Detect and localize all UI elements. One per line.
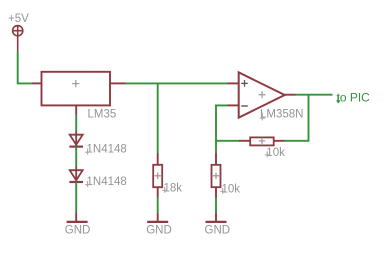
ground GND3 xyxy=(206,213,227,222)
resistor R3 left pin xyxy=(239,140,250,142)
R1 origin tick xyxy=(162,187,167,193)
LM35 IC1 body xyxy=(42,72,111,106)
resistor R2 top pin xyxy=(215,153,217,165)
op-amp U1 - input pin xyxy=(228,104,239,106)
svg-text:GND: GND xyxy=(146,224,172,236)
svg-text:to PIC: to PIC xyxy=(337,90,371,104)
svg-text:1N4148: 1N4148 xyxy=(87,176,127,188)
svg-text:LM35: LM35 xyxy=(88,109,117,121)
LM35 origin cross xyxy=(72,80,79,87)
svg-text:10k: 10k xyxy=(222,183,241,195)
op-amp origin cross xyxy=(259,91,266,98)
op-amp U1 + input pin xyxy=(228,82,239,84)
wire LM35 bottom to diode D1 xyxy=(75,115,77,132)
diode D2 1N4148 xyxy=(69,167,83,183)
wire +5V to LM35 left xyxy=(18,52,32,84)
R1 bottom pin xyxy=(157,187,159,197)
R2 origin tick xyxy=(220,188,225,194)
D1 origin tick xyxy=(85,149,90,155)
R2 origin cross xyxy=(213,173,219,179)
op-amp + input marker xyxy=(241,80,248,87)
svg-text:GND: GND xyxy=(205,224,231,236)
wire output feedback vertical xyxy=(308,95,310,142)
wire D1 to D2 xyxy=(75,147,77,167)
R1 origin cross xyxy=(155,173,161,179)
R3 origin cross xyxy=(259,138,265,144)
svg-text:10k: 10k xyxy=(266,147,285,159)
svg-text:LM358N: LM358N xyxy=(260,109,303,121)
diode D1 1N4148 xyxy=(69,131,83,147)
resistor R3 10k body xyxy=(250,137,274,145)
R2 bottom pin xyxy=(215,187,217,197)
wire D2 to GND1 xyxy=(75,182,77,213)
op-amp - input marker xyxy=(241,105,248,107)
svg-text:18k: 18k xyxy=(164,182,183,194)
wire node to R2 10k xyxy=(215,141,217,153)
wire op-amp - input xyxy=(216,105,228,141)
op-amp output pin xyxy=(285,94,296,96)
LM35 right pin xyxy=(110,82,126,84)
resistor R1 18k body xyxy=(153,165,162,187)
op-amp name origin tick xyxy=(260,113,265,121)
svg-text:GND: GND xyxy=(65,224,91,236)
wire R2 to GND3 xyxy=(215,198,217,214)
+5V supply P1 xyxy=(13,26,23,52)
LM35 bottom pin xyxy=(75,105,77,114)
LM35 left pin xyxy=(32,82,42,84)
wire LM35 out to op-amp + input xyxy=(126,82,228,84)
ground GND1 xyxy=(67,213,88,222)
op-amp U1 LM358N body xyxy=(239,72,285,117)
resistor R1 18k top pin xyxy=(157,153,159,165)
R3 origin tick xyxy=(265,151,270,157)
wire feedback right segment xyxy=(285,140,309,142)
wire feedback left segment xyxy=(216,140,239,142)
D2 origin tick xyxy=(85,181,90,187)
wire junction branch down to R1 18k xyxy=(157,83,159,153)
ground GND2 xyxy=(147,213,168,222)
to PIC origin arrow xyxy=(337,95,340,103)
resistor R2 10k body xyxy=(212,165,221,187)
svg-text:+5V: +5V xyxy=(8,13,29,25)
wire R1 to GND2 xyxy=(157,198,159,214)
wire output to label xyxy=(296,94,333,96)
svg-text:1N4148: 1N4148 xyxy=(87,144,127,156)
resistor R3 right pin xyxy=(274,140,285,142)
